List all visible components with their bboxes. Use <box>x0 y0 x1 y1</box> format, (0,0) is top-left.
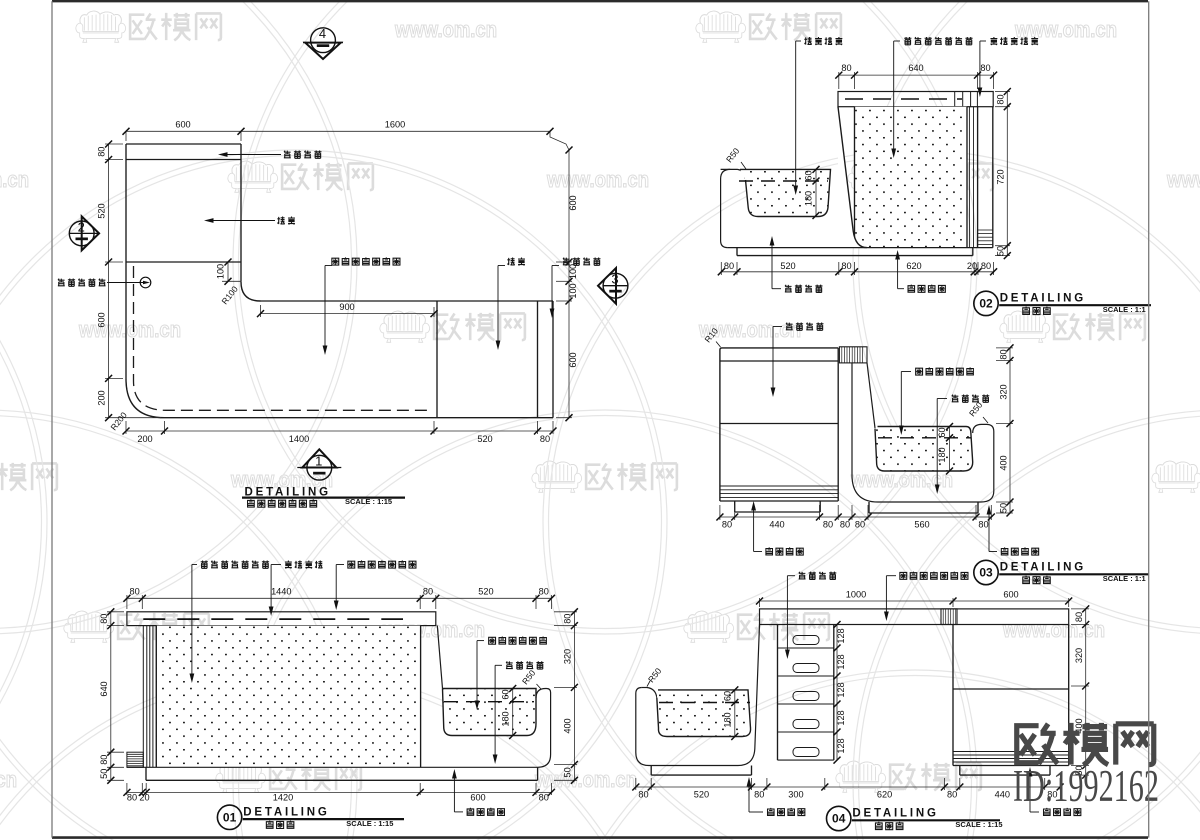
svg-text:80: 80 <box>981 261 991 271</box>
svg-text:80: 80 <box>99 614 109 624</box>
svg-text:SCALE : 1:1: SCALE : 1:1 <box>1103 574 1146 583</box>
svg-text:20: 20 <box>139 792 149 802</box>
svg-text:80: 80 <box>129 587 139 597</box>
svg-text:100: 100 <box>568 264 578 279</box>
svg-text:80: 80 <box>823 520 833 530</box>
svg-text:440: 440 <box>769 520 784 530</box>
svg-text:DETAILING: DETAILING <box>243 807 329 819</box>
svg-text:80: 80 <box>423 587 433 597</box>
svg-text:SCALE : 1:15: SCALE : 1:15 <box>345 497 392 506</box>
svg-text:80: 80 <box>840 520 850 530</box>
svg-text:01: 01 <box>223 811 237 825</box>
svg-text:180: 180 <box>501 711 511 726</box>
svg-text:80: 80 <box>841 261 851 271</box>
svg-text:80: 80 <box>978 520 988 530</box>
svg-text:300: 300 <box>788 790 803 800</box>
svg-text:50: 50 <box>562 767 572 777</box>
svg-text:80: 80 <box>638 790 648 800</box>
svg-text:80: 80 <box>947 790 957 800</box>
svg-text:600: 600 <box>175 120 190 130</box>
svg-text:180: 180 <box>937 447 947 462</box>
svg-text:80: 80 <box>97 147 107 157</box>
svg-text:720: 720 <box>996 169 1006 184</box>
svg-text:80: 80 <box>1074 612 1084 622</box>
svg-text:1: 1 <box>315 454 322 469</box>
svg-text:SCALE : 1:15: SCALE : 1:15 <box>955 820 1002 829</box>
svg-text:50: 50 <box>998 503 1008 513</box>
svg-text:02: 02 <box>979 297 993 311</box>
svg-text:640: 640 <box>99 681 109 696</box>
svg-text:80: 80 <box>540 434 550 444</box>
svg-text:128: 128 <box>836 738 846 753</box>
svg-text:100: 100 <box>216 264 226 279</box>
svg-text:128: 128 <box>836 710 846 725</box>
svg-text:60: 60 <box>804 170 814 180</box>
svg-text:60: 60 <box>723 691 733 701</box>
svg-text:200: 200 <box>137 434 152 444</box>
svg-text:DETAILING: DETAILING <box>852 808 938 820</box>
svg-text:320: 320 <box>562 649 572 664</box>
svg-text:2: 2 <box>78 219 85 234</box>
svg-text:320: 320 <box>1074 648 1084 663</box>
svg-text:www.om.cn: www.om.cn <box>78 317 181 342</box>
svg-text:200: 200 <box>97 390 107 405</box>
svg-text:128: 128 <box>836 654 846 669</box>
svg-text:03: 03 <box>979 566 993 580</box>
svg-text:600: 600 <box>568 195 578 210</box>
svg-text:80: 80 <box>980 63 990 73</box>
svg-text:1000: 1000 <box>846 590 866 600</box>
svg-text:80: 80 <box>539 587 549 597</box>
svg-text:3: 3 <box>611 272 618 287</box>
svg-text:www.om.cn: www.om.cn <box>1002 617 1105 642</box>
svg-text:560: 560 <box>914 520 929 530</box>
svg-text:80: 80 <box>855 520 865 530</box>
svg-text:400: 400 <box>562 718 572 733</box>
svg-text:900: 900 <box>339 302 354 312</box>
svg-text:320: 320 <box>998 384 1008 399</box>
svg-text:20: 20 <box>967 261 977 271</box>
svg-text:60: 60 <box>937 427 947 437</box>
svg-text:04: 04 <box>832 812 846 826</box>
svg-text:www.om.cn: www.om.cn <box>1014 17 1117 42</box>
svg-text:620: 620 <box>906 261 921 271</box>
svg-text:80: 80 <box>754 790 764 800</box>
svg-text:520: 520 <box>477 434 492 444</box>
svg-text:SCALE : 1:1: SCALE : 1:1 <box>1103 305 1146 314</box>
svg-text:80: 80 <box>539 792 549 802</box>
svg-text:80: 80 <box>998 349 1008 359</box>
svg-text:80: 80 <box>127 792 137 802</box>
svg-text:ID:1992162: ID:1992162 <box>1013 761 1159 811</box>
svg-text:180: 180 <box>723 712 733 727</box>
svg-text:600: 600 <box>470 792 485 802</box>
svg-text:1420: 1420 <box>273 792 293 802</box>
svg-text:600: 600 <box>97 312 107 327</box>
svg-text:520: 520 <box>478 587 493 597</box>
svg-text:128: 128 <box>836 682 846 697</box>
svg-text:DETAILING: DETAILING <box>1000 293 1086 305</box>
svg-text:620: 620 <box>877 790 892 800</box>
svg-text:80: 80 <box>724 261 734 271</box>
svg-text:1400: 1400 <box>289 434 309 444</box>
svg-text:180: 180 <box>804 191 814 206</box>
svg-text:SCALE : 1:15: SCALE : 1:15 <box>346 819 393 828</box>
svg-text:80: 80 <box>996 94 1006 104</box>
svg-text:www.om.cn: www.om.cn <box>1166 167 1200 192</box>
svg-text:www.om.cn: www.om.cn <box>0 167 29 192</box>
svg-text:600: 600 <box>568 352 578 367</box>
svg-text:520: 520 <box>694 790 709 800</box>
svg-text:100: 100 <box>568 283 578 298</box>
svg-text:520: 520 <box>97 203 107 218</box>
svg-text:128: 128 <box>836 628 846 643</box>
svg-text:50: 50 <box>996 246 1006 256</box>
svg-text:www.om.cn: www.om.cn <box>394 17 497 42</box>
svg-text:80: 80 <box>722 520 732 530</box>
svg-text:440: 440 <box>995 790 1010 800</box>
svg-text:640: 640 <box>908 63 923 73</box>
svg-text:400: 400 <box>998 455 1008 470</box>
svg-text:www.om.cn: www.om.cn <box>546 167 649 192</box>
svg-text:80: 80 <box>841 63 851 73</box>
svg-text:www.om.cn: www.om.cn <box>0 767 17 792</box>
svg-text:4: 4 <box>319 26 326 41</box>
svg-text:80: 80 <box>562 614 572 624</box>
svg-text:60: 60 <box>501 689 511 699</box>
svg-text:520: 520 <box>780 261 795 271</box>
svg-text:600: 600 <box>1003 590 1018 600</box>
svg-text:50: 50 <box>99 769 109 779</box>
svg-text:80: 80 <box>99 755 109 765</box>
svg-text:1600: 1600 <box>385 120 405 130</box>
svg-text:1440: 1440 <box>271 587 291 597</box>
svg-text:DETAILING: DETAILING <box>1000 562 1086 574</box>
